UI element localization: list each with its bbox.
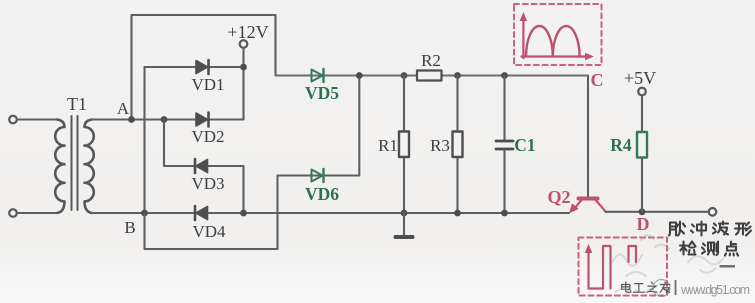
wire +12V down to VD1 cathode	[242, 48, 244, 67]
wire Q2 collector to D and output terminal	[606, 211, 710, 213]
transistor Q2	[570, 199, 605, 213]
wire B bottom route to VD6 anode	[145, 176, 278, 250]
transformer T1 primary winding	[55, 120, 64, 214]
junction dot +12V node	[240, 64, 247, 71]
output terminal circle	[709, 208, 717, 216]
node B dot	[141, 210, 148, 217]
waveform C humps	[526, 26, 580, 57]
waveform box C (dashed)	[514, 4, 602, 65]
label 检测点 (hand-drawn glyphs)	[680, 242, 738, 256]
svg-text:+5V: +5V	[624, 68, 656, 88]
svg-text:R2: R2	[421, 51, 441, 70]
wire R4 to D	[641, 158, 643, 212]
wire A up-and-over to VD5 anode	[132, 15, 276, 120]
svg-text:C: C	[591, 70, 604, 90]
junction dot R3 top	[454, 72, 461, 79]
diode VD2	[196, 113, 209, 127]
node D dot	[639, 208, 646, 215]
resistor R1 body	[399, 132, 409, 158]
svg-text:D: D	[637, 214, 650, 234]
junction dot VD6 riser / top rail	[356, 72, 363, 79]
wire VD1 row	[145, 66, 244, 68]
waveform D baseline	[589, 287, 604, 289]
wire VD6 cathode riser to top rail	[358, 76, 360, 176]
wire primary bottom lead	[17, 212, 57, 214]
svg-text:A: A	[117, 99, 130, 118]
resistor R2	[417, 71, 442, 81]
wire VD3 anode vertical to B rail	[242, 166, 244, 213]
svg-text:Q2: Q2	[547, 187, 570, 207]
capacitor C1 plates	[496, 141, 513, 149]
svg-text:www.dg51.com: www.dg51.com	[680, 283, 750, 297]
transformer T1 secondary winding	[85, 120, 94, 214]
waveform C vertical axis	[522, 17, 524, 58]
diode VD4 (points left)	[195, 206, 208, 220]
watermark circle mark	[653, 280, 670, 297]
resistor R4 body (green)	[637, 132, 647, 158]
junction dot C1 bottom	[501, 210, 508, 217]
diode VD5 (green)	[312, 69, 324, 82]
junction dot R1 bottom	[401, 210, 408, 217]
resistor R3 wire	[456, 76, 458, 214]
svg-text:R4: R4	[610, 135, 632, 155]
waveform D pulse 1	[603, 246, 611, 289]
junction dot VD3/B rail	[240, 210, 247, 217]
svg-text:VD5: VD5	[305, 83, 339, 103]
junction dot A row to VD3 branch	[161, 116, 168, 123]
waveform D pulse 2	[629, 246, 637, 262]
transformer T1 primary terminal (top)	[9, 116, 17, 124]
wire VD1 anode vertical (crosses A row, joins B rail)	[143, 67, 145, 213]
svg-text:R3: R3	[430, 136, 450, 155]
waveform C horizontal axis	[521, 55, 587, 57]
svg-text:VD2: VD2	[191, 127, 224, 146]
svg-text:R1: R1	[378, 136, 398, 155]
wire secondary top (A row)	[92, 118, 244, 120]
svg-text:B: B	[124, 218, 135, 237]
waveform box D (dashed)	[579, 238, 668, 296]
+5V terminal	[638, 88, 646, 96]
transformer core	[72, 116, 78, 210]
svg-text:T1: T1	[67, 94, 87, 114]
junction dot C1 top	[501, 72, 508, 79]
wire VD3 branch vertical	[163, 120, 165, 167]
svg-text:+12V: +12V	[227, 22, 268, 42]
junction dot R3 bottom	[454, 210, 461, 217]
wire VD6 row	[278, 174, 360, 176]
resistor R3 body	[453, 132, 463, 158]
svg-text:VD3: VD3	[191, 174, 224, 193]
svg-text:VD4: VD4	[192, 222, 226, 241]
junction dot R1 top	[401, 72, 408, 79]
wire primary top lead	[17, 118, 57, 120]
+12V terminal	[240, 40, 248, 48]
svg-text:VD1: VD1	[191, 75, 224, 94]
watermark 电工之友 (hand-drawn glyphs)	[622, 282, 670, 292]
ground	[396, 213, 413, 237]
wire VD1-VD2 cathode vertical	[242, 67, 244, 120]
label 脉冲波形 (hand-drawn glyphs)	[669, 222, 751, 236]
wire top rail VD5 row	[276, 74, 589, 76]
ghost scribbles (faint removed watermark)	[612, 235, 724, 292]
wire VD3 row	[164, 165, 244, 167]
wire secondary bottom / bottom rail to Q2 emitter	[92, 212, 569, 214]
diode VD6 (green)	[312, 169, 324, 182]
transformer T1 primary terminal (bottom)	[9, 209, 17, 217]
capacitor C1 bottom lead	[503, 150, 505, 213]
diode VD1	[196, 60, 209, 74]
diode VD3 (points left)	[195, 159, 208, 173]
resistor R1 wire	[403, 76, 405, 214]
ghost dash mark	[720, 265, 736, 267]
svg-text:C1: C1	[514, 135, 535, 155]
wire top rail corner down to Q2 base	[587, 76, 589, 197]
wire +5V down to R4	[641, 95, 643, 132]
capacitor C1 top lead	[503, 76, 505, 141]
node A	[128, 116, 135, 123]
watermark separator	[675, 280, 677, 295]
waveform D vertical arrow	[587, 249, 589, 289]
svg-text:VD6: VD6	[305, 184, 339, 204]
